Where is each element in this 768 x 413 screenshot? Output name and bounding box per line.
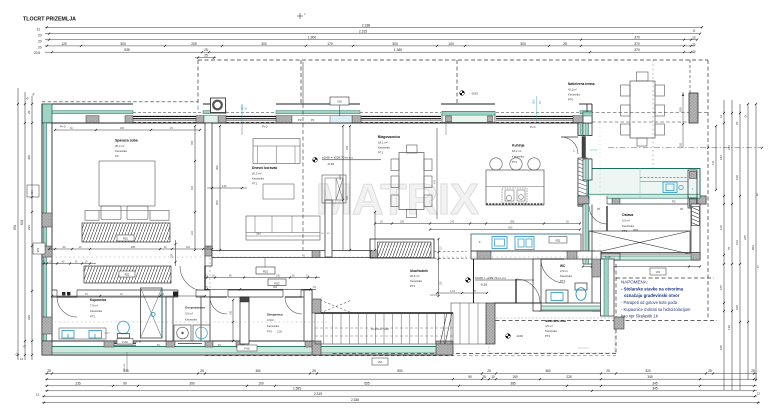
- bath door panel marks: [62, 292, 65, 295]
- svg-text:-0,03: -0,03: [516, 334, 523, 338]
- svg-text:25: 25: [692, 43, 696, 47]
- bottom exterior wall: [42, 341, 313, 355]
- svg-text:370: 370: [634, 42, 640, 46]
- svg-text:70: 70: [727, 246, 731, 250]
- svg-text:345: 345: [647, 375, 653, 379]
- svg-text:P1: P1: [311, 118, 315, 122]
- svg-text:300: 300: [261, 42, 267, 46]
- elevation marker porch: [506, 334, 511, 339]
- WC left wall: [533, 259, 541, 311]
- ostava storage X box: [589, 231, 690, 254]
- svg-text:25: 25: [692, 36, 696, 40]
- dashed center guides vertical: [302, 104, 304, 250]
- svg-text:P+0: P+0: [530, 125, 536, 129]
- svg-text:160: 160: [230, 310, 233, 315]
- svg-text:3: 3: [756, 193, 758, 197]
- svg-text:-0,03: -0,03: [471, 92, 478, 96]
- bathroom toilet: [118, 321, 130, 334]
- kitchen counter bottom: [471, 234, 581, 251]
- svg-text:803: 803: [751, 245, 755, 250]
- svg-text:4,5m²: 4,5m²: [267, 318, 274, 322]
- summer kitchen counter teal: [589, 169, 701, 199]
- svg-text:P0: P0: [115, 154, 119, 158]
- svg-text:430: 430: [160, 293, 165, 296]
- svg-text:PT1: PT1: [560, 279, 566, 283]
- svg-text:100: 100: [448, 42, 454, 46]
- left wall blocks: [42, 246, 52, 257]
- right porch teal wall: [601, 259, 615, 316]
- terrace wall with summer kitchen: [578, 196, 706, 204]
- svg-text:R22: R22: [275, 281, 280, 285]
- top wall column blocks: [86, 116, 99, 123]
- bed: [99, 161, 155, 206]
- TV cabinet: [322, 175, 346, 203]
- svg-text:Keramika: Keramika: [185, 318, 197, 322]
- gospodarstvo walls: [166, 297, 173, 341]
- svg-text:20: 20: [38, 34, 42, 38]
- parapet label box bottom: [237, 345, 257, 351]
- svg-text:180: 180: [400, 220, 405, 223]
- svg-text:12: 12: [37, 28, 41, 32]
- bathroom door arc: [57, 296, 77, 298]
- svg-text:691: 691: [20, 219, 24, 225]
- elevation marker living: [313, 157, 318, 162]
- entry-WC wall south of kitchen counter: [471, 251, 594, 259]
- svg-text:535: 535: [124, 48, 130, 52]
- svg-text:7,9 m²: 7,9 m²: [90, 304, 98, 308]
- svg-text:320: 320: [338, 175, 342, 180]
- svg-text:100: 100: [735, 305, 739, 310]
- svg-text:Keramika: Keramika: [378, 146, 390, 150]
- svg-text:834: 834: [13, 224, 17, 230]
- svg-text:140: 140: [450, 220, 455, 223]
- svg-text:550: 550: [215, 200, 219, 205]
- svg-text:V01: V01: [31, 190, 34, 195]
- roof dashed outline: [42, 101, 198, 103]
- svg-text:235: 235: [75, 381, 81, 385]
- svg-text:295: 295: [131, 246, 136, 249]
- 100 dim terrace: [682, 92, 684, 148]
- svg-text:356: 356: [191, 140, 194, 145]
- svg-text:V01: V01: [378, 360, 383, 364]
- svg-text:MATRIX: MATRIX: [578, 346, 589, 350]
- bottom-left corner block: [42, 341, 52, 355]
- svg-text:1.360: 1.360: [394, 48, 402, 52]
- svg-text:370: 370: [634, 48, 640, 52]
- svg-text:245: 245: [743, 235, 747, 240]
- svg-text:590: 590: [397, 369, 403, 373]
- svg-text:100: 100: [679, 107, 683, 112]
- svg-text:d=10: d=10: [105, 333, 111, 335]
- svg-text:460: 460: [27, 155, 31, 160]
- svg-text:190: 190: [735, 175, 739, 180]
- svg-text:105: 105: [719, 345, 723, 350]
- svg-text:P+0: P+0: [262, 125, 268, 129]
- svg-text:±0.00 = +229.70 m.n.v: ±0.00 = +229.70 m.n.v: [475, 276, 506, 280]
- svg-text:170: 170: [327, 42, 333, 46]
- top wall light cells: [204, 116, 218, 123]
- svg-text:2.315: 2.315: [314, 392, 322, 396]
- window pillar piece kitchen: [442, 112, 495, 123]
- kitchen island: [486, 170, 544, 205]
- svg-text:385: 385: [510, 381, 516, 385]
- svg-text:P+25: P+25: [605, 256, 611, 259]
- svg-text:385: 385: [510, 219, 515, 223]
- svg-text:296: 296: [27, 225, 31, 230]
- svg-text:360: 360: [545, 369, 551, 373]
- svg-text:470: 470: [434, 179, 437, 184]
- svg-text:1.585: 1.585: [293, 386, 301, 390]
- svg-text:655: 655: [364, 381, 370, 385]
- svg-text:25: 25: [204, 54, 208, 58]
- svg-text:223+25: 223+25: [590, 150, 598, 152]
- svg-text:296: 296: [120, 127, 125, 130]
- svg-text:2,9 m²: 2,9 m²: [560, 269, 568, 273]
- svg-text:Dnevni boravak: Dnevni boravak: [252, 166, 277, 170]
- svg-text:V01: V01: [337, 100, 342, 104]
- svg-text:26,3 m²: 26,3 m²: [252, 172, 262, 176]
- strojarnica right wall: [304, 290, 312, 341]
- svg-text:Keramika: Keramika: [252, 177, 264, 181]
- svg-text:120: 120: [191, 230, 194, 235]
- svg-text:356: 356: [346, 145, 349, 150]
- svg-text:R21: R21: [263, 269, 268, 273]
- svg-text:Natkriveni ulaz: Natkriveni ulaz: [545, 319, 567, 323]
- svg-text:11: 11: [692, 29, 695, 33]
- svg-text:2.338: 2.338: [362, 23, 370, 27]
- svg-text:Keramika: Keramika: [410, 279, 422, 283]
- svg-text:360: 360: [508, 226, 513, 230]
- svg-text:320: 320: [645, 369, 651, 373]
- strojarnica west wall: [240, 297, 249, 344]
- svg-text:300: 300: [520, 42, 526, 46]
- svg-text:Keramika: Keramika: [267, 324, 279, 328]
- svg-text:300: 300: [120, 42, 126, 46]
- vent label below bottom wall: [126, 352, 128, 371]
- svg-text:225: 225: [566, 375, 572, 379]
- svg-text:165: 165: [719, 285, 723, 290]
- corridor wall horizontal: [212, 251, 372, 258]
- dim vertical strojarnica: [232, 300, 234, 341]
- svg-text:PT1: PT1: [512, 160, 518, 164]
- entry hatched cabinet: [370, 239, 434, 258]
- coffee table: [263, 184, 294, 199]
- interior dimension lines: [55, 129, 200, 131]
- windows in top wall: [133, 115, 203, 117]
- svg-text:Gospodarstvo: Gospodarstvo: [185, 306, 206, 310]
- svg-text:20,6 m²: 20,6 m²: [410, 274, 420, 278]
- svg-text:- Stolarske stavke na otvorima: - Stolarske stavke na otvorima: [621, 287, 684, 292]
- svg-text:70: 70: [735, 121, 739, 125]
- small misc dims bedroom window: [241, 123, 243, 135]
- svg-text:18,2 m²: 18,2 m²: [512, 149, 522, 153]
- ostava door arc: [606, 206, 608, 231]
- svg-text:25: 25: [47, 369, 51, 373]
- svg-text:25: 25: [708, 369, 712, 373]
- svg-text:345: 345: [652, 386, 658, 390]
- terrace top-left corner wall: [583, 112, 592, 123]
- terrace left wall upper: [583, 123, 592, 136]
- dining table: [399, 153, 424, 210]
- -0,03 marker terrace: [460, 91, 465, 96]
- entry steps: [451, 303, 487, 344]
- svg-text:5,5 m²: 5,5 m²: [622, 219, 630, 223]
- svg-text:označaju građevinski otvor: označaju građevinski otvor: [624, 293, 680, 298]
- svg-text:R22: R22: [125, 273, 130, 277]
- svg-text:290: 290: [171, 253, 174, 258]
- svg-text:P+60: P+60: [244, 349, 250, 351]
- svg-text:-0,16: -0,16: [327, 162, 334, 166]
- bottom dimension rows: [45, 373, 757, 375]
- svg-text:2,50: 2,50: [277, 330, 283, 334]
- elevation marker entry: [466, 278, 471, 283]
- svg-text:PT1: PT1: [622, 229, 628, 233]
- svg-text:30,3 m²: 30,3 m²: [115, 144, 125, 148]
- survey point marker: [297, 15, 303, 17]
- svg-text:TLOCRT PRIZEMLJA: TLOCRT PRIZEMLJA: [23, 17, 76, 23]
- terrace right teal wall: [688, 170, 697, 208]
- svg-text:10: 10: [491, 375, 495, 379]
- wall below kitchen door - hatched pier: [578, 158, 587, 206]
- svg-text:193: 193: [735, 240, 739, 245]
- summer kitchen sink: [663, 182, 677, 193]
- svg-text:12: 12: [36, 393, 40, 397]
- svg-text:25: 25: [606, 369, 610, 373]
- ostava door opening: [589, 195, 607, 204]
- bathroom sink counter: [59, 328, 106, 339]
- svg-text:3,6 m²: 3,6 m²: [185, 312, 193, 316]
- stairs: [315, 313, 453, 344]
- svg-text:Ostava: Ostava: [622, 213, 633, 217]
- porch dotted outline: [489, 318, 615, 353]
- svg-text:PT1: PT1: [378, 151, 384, 155]
- svg-text:330: 330: [346, 195, 349, 200]
- living right wall: [325, 200, 332, 257]
- svg-text:25: 25: [482, 375, 486, 379]
- svg-text:330: 330: [191, 185, 194, 190]
- svg-text:R22: R22: [123, 237, 128, 241]
- svg-text:Keramika: Keramika: [568, 93, 580, 97]
- svg-text:F: F: [479, 240, 481, 244]
- wardrobe R22 upper: [82, 223, 170, 242]
- svg-text:Keramika: Keramika: [90, 309, 102, 313]
- bedroom right wall: [205, 123, 212, 266]
- svg-text:246: 246: [727, 145, 731, 150]
- entry door arc: [515, 279, 517, 303]
- bottom wall blocks: [42, 341, 52, 347]
- svg-text:25: 25: [563, 42, 567, 46]
- svg-text:PT0: PT0: [267, 330, 272, 334]
- svg-text:1.900: 1.900: [308, 36, 316, 40]
- counter sink cyan: [492, 237, 507, 249]
- door niche right of WC: [601, 253, 620, 260]
- wardrobe R22 lower: [84, 266, 171, 283]
- svg-text:300: 300: [392, 42, 398, 46]
- svg-text:-0,16: -0,16: [480, 282, 487, 286]
- svg-text:4,6 m²: 4,6 m²: [545, 324, 553, 328]
- grill: [689, 93, 698, 123]
- svg-text:Keramika: Keramika: [115, 149, 127, 153]
- R21 box: [256, 267, 275, 274]
- svg-text:18,1 m²: 18,1 m²: [378, 141, 388, 145]
- washing machines: [174, 325, 191, 341]
- gospodarstvo door arc: [210, 296, 227, 298]
- svg-text:WC: WC: [560, 264, 566, 268]
- svg-text:390: 390: [189, 381, 195, 385]
- svg-text:±0.00 = +229.70 m.n.v: ±0.00 = +229.70 m.n.v: [322, 156, 353, 160]
- svg-text:300: 300: [215, 165, 219, 170]
- svg-text:PT0: PT0: [568, 98, 574, 102]
- svg-text:535: 535: [123, 369, 129, 373]
- svg-text:N=16×17,5/28: N=16×17,5/28: [371, 327, 389, 331]
- svg-text:360: 360: [255, 369, 261, 373]
- terrace right wall blocks over counter: [688, 170, 697, 198]
- svg-text:151: 151: [679, 142, 683, 147]
- WC sink: [546, 290, 568, 303]
- svg-text:Kuhinja: Kuhinja: [512, 144, 525, 148]
- dim row above bottom wardrobe: [52, 295, 205, 297]
- parapet box: [117, 339, 133, 345]
- svg-text:360: 360: [273, 286, 278, 289]
- top exterior wall: [42, 104, 592, 123]
- svg-text:Ulaz/hodnik: Ulaz/hodnik: [410, 269, 428, 273]
- bottom wall windows: [109, 342, 136, 344]
- chimney: [211, 98, 226, 113]
- entry wall stub: [473, 259, 475, 303]
- svg-text:370: 370: [634, 36, 640, 40]
- strojarnica door arc: [285, 296, 302, 298]
- svg-text:25: 25: [204, 48, 208, 52]
- svg-text:PT1: PT1: [410, 284, 416, 288]
- svg-text:25: 25: [487, 369, 491, 373]
- svg-text:110: 110: [719, 225, 723, 230]
- svg-text:NAPOMENA:: NAPOMENA:: [621, 280, 648, 285]
- svg-text:390/290: 390/290: [430, 295, 439, 297]
- svg-text:140: 140: [222, 184, 227, 188]
- WC right wall: [592, 251, 601, 311]
- svg-text:Blagovaonica: Blagovaonica: [378, 135, 400, 139]
- ostava left wall: [583, 204, 592, 264]
- shower: [141, 288, 163, 338]
- svg-text:R21: R21: [556, 238, 561, 242]
- svg-text:370: 370: [633, 228, 638, 232]
- svg-text:20: 20: [38, 46, 42, 50]
- svg-text:Natkrivena terasa: Natkrivena terasa: [568, 82, 595, 86]
- svg-text:25: 25: [200, 369, 204, 373]
- WC bottom wall: [539, 303, 601, 311]
- svg-text:345: 345: [652, 381, 658, 385]
- svg-text:MATRIX: MATRIX: [316, 175, 479, 224]
- svg-text:150: 150: [276, 274, 281, 277]
- bed nightstands: [85, 211, 99, 221]
- svg-text:20,5: 20,5: [34, 51, 40, 55]
- bedroom door arc: [204, 266, 206, 291]
- porch column: [486, 303, 495, 344]
- svg-text:290: 290: [27, 315, 31, 320]
- svg-text:1: 1: [757, 265, 759, 269]
- svg-text:100: 100: [258, 381, 264, 385]
- V01 box top: [330, 97, 349, 105]
- left exterior wall: [42, 123, 52, 355]
- svg-text:20: 20: [38, 40, 42, 44]
- svg-text:Keramika: Keramika: [512, 155, 524, 159]
- bathroom top wall: [52, 290, 312, 297]
- svg-text:Keramika: Keramika: [545, 329, 557, 333]
- svg-text:110: 110: [186, 246, 191, 249]
- svg-text:Keramika: Keramika: [560, 274, 572, 278]
- svg-text:120: 120: [61, 42, 67, 46]
- svg-text:90: 90: [468, 375, 472, 379]
- svg-text:131: 131: [711, 160, 715, 165]
- svg-text:1,10: 1,10: [450, 289, 456, 293]
- svg-text:- Kupaonice izolirati sa hidro: - Kupaonice izolirati sa hidroizolacijom: [621, 307, 691, 312]
- svg-text:25: 25: [751, 369, 755, 373]
- kitchen door to terrace + arc: [577, 136, 592, 160]
- svg-text:41,1m²: 41,1m²: [568, 88, 577, 92]
- corner block top-left: [42, 104, 52, 123]
- watermark MATRIX: [250, 173, 650, 224]
- svg-text:kao npr Skalastik 1K: kao npr Skalastik 1K: [621, 314, 659, 319]
- svg-text:306: 306: [532, 99, 536, 104]
- ostava right wall: [691, 204, 700, 260]
- axis dashed through rooms: [42, 321, 330, 323]
- svg-text:306: 306: [196, 105, 200, 110]
- svg-text:PT2: PT2: [545, 334, 551, 338]
- svg-text:P2: P2: [672, 200, 676, 204]
- svg-text:2.338: 2.338: [351, 398, 359, 402]
- stairs dashed top: [320, 300, 352, 313]
- WC toilet: [575, 283, 587, 290]
- svg-text:Kupaonica: Kupaonica: [90, 298, 107, 302]
- svg-text:- Parapeti od gotove kote poda: - Parapeti od gotove kote poda: [621, 300, 678, 305]
- living sofa top: [253, 139, 300, 164]
- ostava bottom wall: [583, 253, 700, 261]
- terrace table: [630, 81, 655, 138]
- svg-text:PT1: PT1: [90, 315, 96, 319]
- kitchen right exterior wall: [578, 123, 587, 206]
- svg-text:25: 25: [27, 110, 31, 114]
- svg-text:130: 130: [727, 325, 731, 330]
- svg-text:205: 205: [191, 42, 197, 46]
- dining chairs: [391, 159, 399, 171]
- dim entry small: [437, 292, 487, 294]
- sofa long bottom: [246, 216, 320, 240]
- svg-text:150: 150: [512, 375, 518, 379]
- svg-text:360: 360: [256, 232, 261, 236]
- svg-text:PT1: PT1: [252, 182, 258, 186]
- svg-text:12: 12: [20, 357, 24, 361]
- svg-text:V01: V01: [37, 247, 40, 252]
- svg-text:182: 182: [719, 155, 723, 160]
- R21 leader: [264, 258, 266, 268]
- svg-text:90: 90: [123, 381, 127, 385]
- svg-text:25: 25: [312, 369, 316, 373]
- svg-text:2.315: 2.315: [359, 30, 367, 34]
- svg-text:12: 12: [757, 392, 761, 396]
- svg-text:25: 25: [692, 50, 696, 54]
- svg-text:V01: V01: [656, 270, 661, 274]
- left dimension columns: [17, 88, 19, 360]
- svg-text:Strojarnica: Strojarnica: [267, 313, 283, 317]
- R23 label box: [549, 237, 567, 244]
- svg-text:12: 12: [719, 114, 723, 118]
- svg-text:P+60: P+60: [122, 342, 128, 344]
- svg-text:P+0: P+0: [60, 125, 66, 129]
- svg-text:Spavaća soba: Spavaća soba: [115, 139, 138, 143]
- bed pillows: [101, 206, 121, 220]
- svg-text:P0: P0: [298, 118, 302, 122]
- right dimension columns: [723, 100, 725, 390]
